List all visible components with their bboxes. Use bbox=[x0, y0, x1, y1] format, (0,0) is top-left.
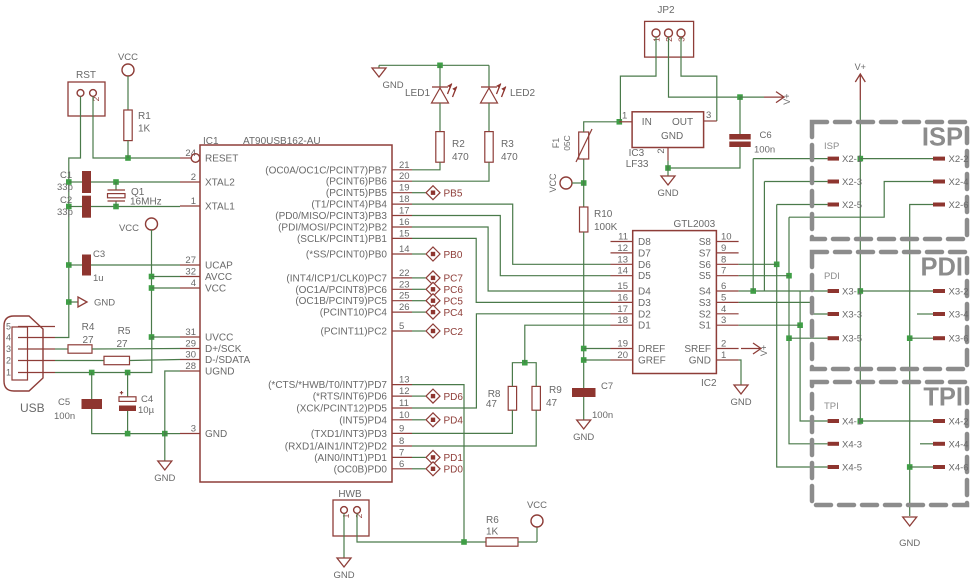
svg-text:VCC: VCC bbox=[527, 500, 547, 511]
svg-text:2: 2 bbox=[191, 172, 196, 183]
svg-text:X4-4: X4-4 bbox=[949, 439, 969, 450]
svg-text:D1: D1 bbox=[638, 321, 651, 332]
svg-text:D6: D6 bbox=[638, 260, 651, 271]
svg-text:C3: C3 bbox=[93, 249, 105, 260]
svg-text:19: 19 bbox=[399, 183, 410, 194]
svg-text:16: 16 bbox=[617, 292, 628, 303]
svg-text:UGND: UGND bbox=[205, 367, 234, 378]
svg-text:VCC: VCC bbox=[118, 52, 138, 63]
svg-text:(PCINT11)PC2: (PCINT11)PC2 bbox=[321, 327, 388, 338]
svg-text:D3: D3 bbox=[638, 298, 651, 309]
svg-text:33p: 33p bbox=[57, 207, 73, 218]
svg-text:V+: V+ bbox=[782, 93, 792, 104]
svg-text:8: 8 bbox=[399, 436, 404, 447]
svg-text:DREF: DREF bbox=[638, 344, 665, 355]
svg-text:2: 2 bbox=[354, 513, 364, 518]
svg-text:16MHz: 16MHz bbox=[130, 197, 162, 208]
svg-text:PB0: PB0 bbox=[444, 250, 463, 261]
svg-text:100n: 100n bbox=[54, 411, 75, 422]
svg-text:XTAL2: XTAL2 bbox=[205, 178, 235, 189]
svg-text:X4-1: X4-1 bbox=[842, 417, 862, 428]
svg-text:HWB: HWB bbox=[338, 489, 362, 500]
svg-text:6: 6 bbox=[721, 281, 726, 292]
svg-text:R9: R9 bbox=[549, 385, 562, 396]
svg-text:(OC0B)PD0: (OC0B)PD0 bbox=[334, 464, 388, 475]
svg-text:1: 1 bbox=[341, 513, 351, 518]
svg-text:(AIN0/INT1)PD1: (AIN0/INT1)PD1 bbox=[314, 453, 387, 464]
svg-text:13: 13 bbox=[617, 254, 628, 265]
svg-text:3: 3 bbox=[706, 110, 711, 121]
svg-text:(OC0A/OC1C/PCINT7)PB7: (OC0A/OC1C/PCINT7)PB7 bbox=[265, 165, 387, 176]
svg-text:17: 17 bbox=[399, 206, 410, 217]
svg-text:IC3: IC3 bbox=[629, 148, 645, 159]
svg-text:IC2: IC2 bbox=[701, 378, 717, 389]
svg-text:S3: S3 bbox=[699, 298, 712, 309]
svg-text:PB5: PB5 bbox=[444, 189, 463, 200]
svg-text:VCC: VCC bbox=[205, 284, 226, 295]
svg-text:10: 10 bbox=[721, 232, 732, 243]
svg-text:(*RTS/INT6)PD6: (*RTS/INT6)PD6 bbox=[313, 392, 388, 403]
svg-text:5: 5 bbox=[721, 292, 726, 303]
svg-text:(*CTS/*HWB/T0/INT7)PD7: (*CTS/*HWB/T0/INT7)PD7 bbox=[268, 380, 387, 391]
svg-text:RESET: RESET bbox=[205, 154, 238, 165]
svg-text:LED2: LED2 bbox=[510, 88, 535, 99]
svg-text:PD6: PD6 bbox=[444, 392, 464, 403]
svg-text:(T1/PCINT4)PB4: (T1/PCINT4)PB4 bbox=[311, 200, 387, 211]
svg-text:D8: D8 bbox=[638, 237, 651, 248]
svg-text:PC7: PC7 bbox=[444, 274, 464, 285]
svg-text:X3-1: X3-1 bbox=[842, 287, 862, 298]
svg-text:30: 30 bbox=[185, 350, 196, 361]
svg-text:(SCLK/PCINT1)PB1: (SCLK/PCINT1)PB1 bbox=[297, 234, 387, 245]
svg-text:7: 7 bbox=[721, 266, 726, 277]
svg-text:(PCINT10)PC4: (PCINT10)PC4 bbox=[320, 308, 388, 319]
svg-text:(PDI/MOSI/PCINT2)PB2: (PDI/MOSI/PCINT2)PB2 bbox=[278, 223, 387, 234]
svg-text:20: 20 bbox=[617, 350, 628, 361]
svg-text:X3-6: X3-6 bbox=[949, 334, 969, 345]
svg-text:VCC: VCC bbox=[548, 173, 558, 193]
svg-text:S2: S2 bbox=[699, 309, 712, 320]
svg-text:X2-3: X2-3 bbox=[842, 177, 862, 188]
svg-text:SREF: SREF bbox=[684, 344, 711, 355]
svg-text:22: 22 bbox=[399, 268, 410, 279]
svg-text:C5: C5 bbox=[58, 397, 70, 408]
svg-text:21: 21 bbox=[399, 160, 410, 171]
svg-text:R5: R5 bbox=[118, 326, 131, 337]
svg-text:X4-6: X4-6 bbox=[949, 463, 969, 474]
svg-text:LED1: LED1 bbox=[405, 88, 430, 99]
svg-text:GND: GND bbox=[382, 80, 403, 91]
svg-text:31: 31 bbox=[185, 327, 196, 338]
svg-text:100n: 100n bbox=[592, 410, 613, 421]
svg-text:(OC1A/PCINT8)PC6: (OC1A/PCINT8)PC6 bbox=[295, 285, 387, 296]
svg-text:C6: C6 bbox=[760, 130, 772, 141]
svg-text:LF33: LF33 bbox=[626, 159, 649, 170]
svg-text:PC6: PC6 bbox=[444, 285, 464, 296]
svg-text:IC1: IC1 bbox=[203, 136, 219, 147]
svg-text:28: 28 bbox=[185, 361, 196, 372]
svg-text:26: 26 bbox=[399, 302, 410, 313]
svg-text:RST: RST bbox=[76, 70, 96, 81]
svg-text:PDI: PDI bbox=[824, 271, 840, 282]
svg-text:3: 3 bbox=[191, 424, 196, 435]
svg-text:1: 1 bbox=[622, 111, 627, 122]
svg-text:14: 14 bbox=[399, 244, 410, 255]
svg-text:AT90USB162-AU: AT90USB162-AU bbox=[243, 136, 321, 147]
svg-text:IN: IN bbox=[642, 117, 652, 128]
svg-text:9: 9 bbox=[399, 423, 404, 434]
svg-text:6: 6 bbox=[399, 459, 404, 470]
svg-text:(OC1B/PCINT9)PC5: (OC1B/PCINT9)PC5 bbox=[295, 296, 387, 307]
svg-text:UVCC: UVCC bbox=[205, 333, 233, 344]
svg-text:33p: 33p bbox=[57, 182, 73, 193]
svg-text:X4-3: X4-3 bbox=[842, 439, 862, 450]
svg-text:GTL2003: GTL2003 bbox=[674, 219, 716, 230]
svg-text:R2: R2 bbox=[452, 139, 465, 150]
svg-text:14: 14 bbox=[617, 266, 628, 277]
svg-text:(PD0/MISO/PCINT3)PB3: (PD0/MISO/PCINT3)PB3 bbox=[275, 211, 387, 222]
svg-text:47: 47 bbox=[546, 398, 558, 409]
svg-text:15: 15 bbox=[617, 281, 628, 292]
svg-text:JP2: JP2 bbox=[657, 5, 675, 16]
svg-text:13: 13 bbox=[399, 375, 410, 386]
svg-text:17: 17 bbox=[617, 304, 628, 315]
svg-text:C7: C7 bbox=[601, 381, 613, 392]
svg-text:V+: V+ bbox=[759, 345, 769, 356]
svg-text:100n: 100n bbox=[754, 145, 775, 156]
svg-text:(TXD1/INT3)PD3: (TXD1/INT3)PD3 bbox=[311, 429, 388, 440]
svg-text:05C: 05C bbox=[562, 135, 572, 151]
svg-text:8: 8 bbox=[721, 254, 726, 265]
svg-text:470: 470 bbox=[452, 152, 469, 163]
svg-text:29: 29 bbox=[185, 339, 196, 350]
svg-text:X3-5: X3-5 bbox=[842, 334, 862, 345]
svg-text:X2-5: X2-5 bbox=[842, 200, 862, 211]
svg-text:X2-6: X2-6 bbox=[949, 200, 969, 211]
svg-text:PC4: PC4 bbox=[444, 308, 464, 319]
svg-text:27: 27 bbox=[116, 339, 128, 350]
svg-text:4: 4 bbox=[6, 333, 11, 343]
svg-text:TPI: TPI bbox=[824, 401, 839, 412]
svg-text:1u: 1u bbox=[93, 273, 104, 284]
svg-text:D+/SCK: D+/SCK bbox=[205, 344, 242, 355]
svg-text:47: 47 bbox=[486, 399, 498, 410]
svg-text:(RXD1/AIN1/INT2)PD2: (RXD1/AIN1/INT2)PD2 bbox=[285, 442, 388, 453]
svg-text:USB: USB bbox=[20, 401, 45, 415]
svg-text:TPI: TPI bbox=[923, 384, 963, 412]
svg-text:X4-2: X4-2 bbox=[949, 417, 969, 428]
svg-text:X2-1: X2-1 bbox=[842, 154, 862, 165]
svg-text:25: 25 bbox=[399, 291, 410, 302]
svg-text:1K: 1K bbox=[486, 527, 499, 538]
svg-text:GND: GND bbox=[154, 473, 175, 484]
svg-text:27: 27 bbox=[82, 335, 94, 346]
svg-text:1K: 1K bbox=[138, 124, 151, 135]
svg-text:18: 18 bbox=[399, 194, 410, 205]
svg-text:4: 4 bbox=[721, 304, 726, 315]
svg-text:PDI: PDI bbox=[920, 254, 963, 282]
svg-text:OUT: OUT bbox=[672, 117, 693, 128]
svg-text:R6: R6 bbox=[486, 515, 499, 526]
svg-text:S6: S6 bbox=[699, 260, 712, 271]
svg-text:11: 11 bbox=[618, 232, 628, 243]
svg-text:VCC: VCC bbox=[119, 223, 139, 234]
svg-text:2: 2 bbox=[721, 339, 726, 350]
svg-text:GND: GND bbox=[657, 188, 678, 199]
svg-text:F1: F1 bbox=[551, 138, 561, 149]
svg-text:X3-3: X3-3 bbox=[842, 310, 862, 321]
svg-text:X4-5: X4-5 bbox=[842, 463, 862, 474]
svg-text:PC2: PC2 bbox=[444, 327, 464, 338]
svg-text:X2-4: X2-4 bbox=[949, 177, 969, 188]
svg-text:GND: GND bbox=[730, 397, 751, 408]
svg-text:9: 9 bbox=[721, 243, 726, 254]
svg-text:GND: GND bbox=[689, 356, 711, 367]
svg-text:15: 15 bbox=[399, 228, 410, 239]
svg-text:10: 10 bbox=[399, 410, 410, 421]
svg-text:GREF: GREF bbox=[638, 356, 666, 367]
svg-text:20: 20 bbox=[399, 171, 410, 182]
svg-text:1: 1 bbox=[721, 350, 726, 361]
svg-text:S4: S4 bbox=[699, 287, 712, 298]
svg-text:1: 1 bbox=[191, 196, 196, 207]
svg-text:19: 19 bbox=[617, 339, 628, 350]
svg-text:12: 12 bbox=[399, 386, 410, 397]
svg-text:V+: V+ bbox=[855, 62, 866, 72]
svg-text:5: 5 bbox=[6, 322, 11, 332]
svg-text:32: 32 bbox=[185, 267, 196, 278]
svg-text:ISP: ISP bbox=[922, 124, 963, 152]
svg-text:23: 23 bbox=[399, 279, 410, 290]
svg-text:GND: GND bbox=[899, 538, 920, 549]
svg-text:(INT4/ICP1/CLK0)PC7: (INT4/ICP1/CLK0)PC7 bbox=[286, 273, 387, 284]
svg-text:D7: D7 bbox=[638, 248, 651, 259]
svg-text:R4: R4 bbox=[82, 322, 95, 333]
svg-text:D2: D2 bbox=[638, 309, 651, 320]
svg-text:(PCINT6)PB6: (PCINT6)PB6 bbox=[326, 177, 388, 188]
svg-text:R1: R1 bbox=[138, 111, 151, 122]
svg-text:(INT5)PD4: (INT5)PD4 bbox=[339, 415, 387, 426]
svg-text:PC5: PC5 bbox=[444, 297, 464, 308]
svg-text:(PCINT5)PB5: (PCINT5)PB5 bbox=[326, 188, 388, 199]
svg-text:1: 1 bbox=[6, 368, 11, 378]
svg-text:3: 3 bbox=[721, 315, 726, 326]
svg-text:10µ: 10µ bbox=[138, 405, 155, 416]
svg-text:16: 16 bbox=[399, 217, 410, 228]
svg-text:S8: S8 bbox=[699, 237, 712, 248]
svg-text:2: 2 bbox=[6, 356, 11, 366]
svg-text:C4: C4 bbox=[141, 394, 153, 405]
svg-text:470: 470 bbox=[501, 152, 518, 163]
svg-text:X3-4: X3-4 bbox=[949, 310, 969, 321]
svg-text:S7: S7 bbox=[699, 248, 712, 259]
svg-text:7: 7 bbox=[399, 447, 404, 458]
svg-text:100K: 100K bbox=[594, 222, 618, 233]
svg-text:AVCC: AVCC bbox=[205, 272, 232, 283]
svg-text:27: 27 bbox=[185, 255, 196, 266]
svg-text:12: 12 bbox=[617, 243, 628, 254]
svg-text:GND: GND bbox=[661, 131, 683, 142]
svg-text:3: 3 bbox=[6, 344, 11, 354]
svg-text:XTAL1: XTAL1 bbox=[205, 202, 235, 213]
svg-text:GND: GND bbox=[573, 432, 594, 443]
svg-text:(XCK/PCINT12)PD5: (XCK/PCINT12)PD5 bbox=[296, 404, 387, 415]
svg-text:R10: R10 bbox=[594, 209, 613, 220]
svg-text:D4: D4 bbox=[638, 287, 651, 298]
svg-text:C1: C1 bbox=[60, 170, 72, 181]
svg-text:S1: S1 bbox=[699, 321, 712, 332]
svg-text:PD0: PD0 bbox=[444, 465, 464, 476]
svg-text:2: 2 bbox=[656, 148, 667, 153]
svg-text:(*SS/PCINT0)PB0: (*SS/PCINT0)PB0 bbox=[306, 250, 388, 261]
svg-text:ISP: ISP bbox=[824, 141, 839, 152]
svg-text:C2: C2 bbox=[60, 195, 72, 206]
svg-text:X3-2: X3-2 bbox=[949, 287, 969, 298]
svg-text:GND: GND bbox=[205, 429, 227, 440]
svg-text:11: 11 bbox=[399, 398, 409, 409]
svg-text:D-/SDATA: D-/SDATA bbox=[205, 355, 251, 366]
svg-text:X2-2: X2-2 bbox=[949, 154, 969, 165]
svg-text:UCAP: UCAP bbox=[205, 261, 233, 272]
svg-text:5: 5 bbox=[399, 321, 404, 332]
svg-text:GND: GND bbox=[333, 570, 354, 581]
svg-text:4: 4 bbox=[191, 278, 196, 289]
svg-text:S5: S5 bbox=[699, 271, 712, 282]
svg-text:PD1: PD1 bbox=[444, 453, 464, 464]
svg-text:GND: GND bbox=[94, 298, 115, 309]
svg-text:D5: D5 bbox=[638, 271, 651, 282]
svg-text:18: 18 bbox=[617, 315, 628, 326]
svg-text:R3: R3 bbox=[501, 139, 514, 150]
svg-text:PD4: PD4 bbox=[444, 416, 464, 427]
